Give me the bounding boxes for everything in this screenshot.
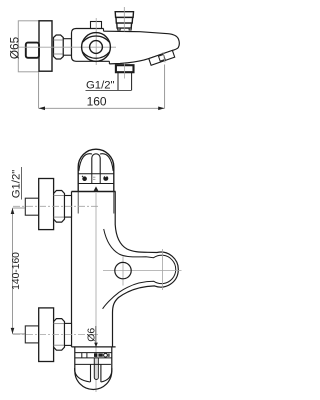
knob band lines bbox=[78, 173, 114, 175]
boss on body top bbox=[91, 22, 102, 31]
upper connector bbox=[65, 196, 72, 218]
aerator bbox=[149, 50, 175, 65]
band icon tub bbox=[103, 176, 108, 181]
lower hex nut bbox=[54, 319, 65, 351]
upper hex nut bbox=[54, 191, 65, 223]
bottom knob icons bbox=[94, 353, 97, 357]
band cell separators bbox=[91, 174, 93, 184]
svg-text:G1/2": G1/2" bbox=[10, 170, 22, 199]
dimension 140-160 bbox=[13, 207, 26, 209]
body left edge bbox=[71, 192, 73, 347]
upper wall nut bbox=[25, 198, 38, 215]
spout inner outline bbox=[103, 229, 176, 309]
spout bbox=[103, 29, 105, 32]
diverter circle bbox=[103, 270, 182, 272]
knob right lobe bbox=[100, 154, 113, 171]
body top flange line bbox=[72, 191, 116, 193]
dimension 160 bbox=[38, 72, 40, 108]
bottom knob dome bbox=[75, 347, 112, 390]
diverter knob bbox=[115, 12, 133, 18]
label G1/2" leader bbox=[21, 167, 23, 200]
knob slot U bbox=[92, 154, 100, 174]
shower outlet fitting G1/2 bbox=[116, 65, 134, 72]
knob Ø65 outline (light) bbox=[18, 21, 39, 72]
wire vertical centerline through cartridge bbox=[95, 18, 97, 65]
wire vertical axis centerline bbox=[95, 193, 97, 392]
wire horizontal centerline of body axis bbox=[19, 46, 116, 48]
lower escutcheon bbox=[39, 308, 54, 362]
connector neck bbox=[63, 39, 71, 56]
lower connector bbox=[65, 323, 72, 345]
escutcheon flange bbox=[39, 21, 52, 71]
upper supply centerline bbox=[13, 205, 99, 207]
bottom band cell separators bbox=[81, 353, 83, 358]
label G1/2" leader line bbox=[86, 90, 132, 92]
body bbox=[72, 29, 110, 62]
band icon shower bbox=[82, 176, 87, 181]
index triangle bbox=[94, 186, 99, 191]
svg-text:Ø65: Ø65 bbox=[8, 36, 22, 59]
cap centerline bbox=[162, 249, 164, 290]
upper escutcheon bbox=[39, 179, 54, 230]
bottom knob left lobe bbox=[75, 368, 91, 382]
cartridge inner lines bbox=[77, 192, 79, 214]
lower wall nut bbox=[25, 326, 38, 343]
spout outer outline bbox=[113, 192, 179, 347]
hex nut bbox=[54, 35, 64, 59]
label Ø6 leader with arrow bbox=[95, 326, 97, 344]
svg-text:140-160: 140-160 bbox=[11, 252, 22, 290]
bottom knob right lobe bbox=[101, 368, 112, 382]
bottom knob slot U bbox=[91, 364, 101, 382]
band tiny marks bbox=[93, 176, 95, 178]
handwheel circle bbox=[82, 33, 111, 62]
lower supply centerline bbox=[13, 333, 100, 335]
knob nut square bbox=[26, 43, 39, 58]
svg-text:Ø6: Ø6 bbox=[86, 328, 98, 342]
knob left lobe bbox=[79, 154, 92, 171]
bottom knob assembly lines bbox=[72, 346, 116, 348]
svg-text:160: 160 bbox=[87, 95, 107, 109]
top lever knob dome bbox=[78, 149, 114, 191]
wire diverter centerline bbox=[123, 7, 125, 32]
svg-text:G1/2": G1/2" bbox=[86, 80, 115, 92]
